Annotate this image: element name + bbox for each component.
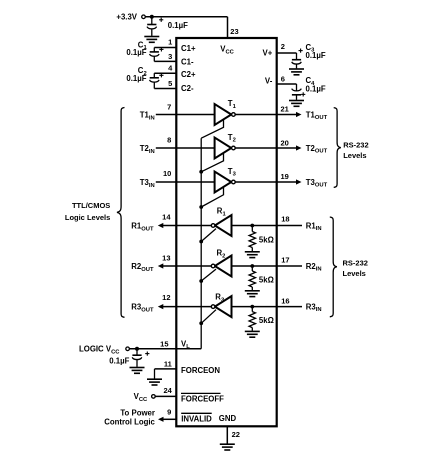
svg-text:5kΩ: 5kΩ	[259, 275, 274, 284]
svg-text:C2-: C2-	[181, 84, 194, 93]
svg-text:14: 14	[162, 213, 171, 222]
svg-text:FORCEON: FORCEON	[181, 366, 220, 375]
svg-text:0.1µF: 0.1µF	[109, 356, 129, 365]
svg-text:23: 23	[230, 27, 238, 36]
svg-text:21: 21	[281, 104, 289, 113]
svg-text:19: 19	[281, 172, 289, 181]
svg-text:1: 1	[168, 38, 172, 47]
svg-text:C2+: C2+	[181, 70, 196, 79]
svg-text:22: 22	[232, 430, 240, 439]
svg-text:7: 7	[167, 102, 171, 111]
svg-text:2: 2	[281, 42, 285, 51]
svg-text:RS-232: RS-232	[343, 259, 368, 268]
svg-text:V+: V+	[263, 48, 273, 57]
svg-text:10: 10	[163, 169, 171, 178]
svg-text:3: 3	[168, 52, 172, 61]
svg-text:17: 17	[281, 256, 289, 265]
svg-text:FORCEOFF: FORCEOFF	[181, 394, 224, 403]
svg-text:24: 24	[163, 386, 172, 395]
svg-text:15: 15	[160, 340, 168, 349]
svg-text:6: 6	[281, 74, 285, 83]
svg-text:INVALID: INVALID	[181, 415, 212, 424]
svg-text:Control Logic: Control Logic	[104, 417, 155, 426]
svg-text:Logic Levels: Logic Levels	[65, 213, 110, 222]
svg-text:11: 11	[164, 359, 172, 368]
svg-text:RS-232: RS-232	[343, 140, 368, 149]
svg-text:Levels: Levels	[343, 269, 366, 278]
svg-text:C1+: C1+	[181, 44, 196, 53]
svg-text:5: 5	[168, 79, 172, 88]
svg-text:V-: V-	[265, 77, 273, 86]
svg-text:0.1µF: 0.1µF	[126, 48, 146, 57]
svg-text:8: 8	[167, 136, 171, 145]
svg-text:16: 16	[281, 297, 289, 306]
svg-text:13: 13	[162, 253, 170, 262]
svg-text:18: 18	[281, 214, 289, 223]
svg-text:TTL/CMOS: TTL/CMOS	[72, 201, 110, 210]
svg-text:12: 12	[162, 293, 170, 302]
svg-text:0.1µF: 0.1µF	[306, 51, 326, 60]
svg-text:5kΩ: 5kΩ	[259, 236, 274, 245]
svg-text:0.1µF: 0.1µF	[126, 74, 146, 83]
svg-text:+3.3V: +3.3V	[116, 12, 137, 21]
svg-text:0.1µF: 0.1µF	[306, 85, 326, 94]
svg-text:5kΩ: 5kΩ	[259, 316, 274, 325]
svg-text:C1-: C1-	[181, 57, 194, 66]
svg-text:0.1µF: 0.1µF	[168, 21, 188, 30]
svg-text:GND: GND	[219, 414, 237, 423]
svg-text:20: 20	[281, 138, 289, 147]
svg-text:9: 9	[167, 407, 171, 416]
svg-text:Levels: Levels	[343, 151, 366, 160]
